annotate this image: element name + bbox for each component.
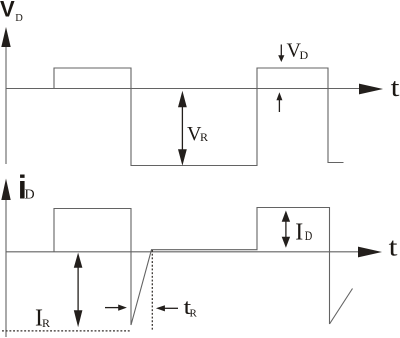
t_R label	[184, 295, 198, 319]
svg-text:R: R	[200, 130, 208, 144]
svg-text:R: R	[190, 308, 198, 320]
V_R measure arrow	[178, 91, 187, 166]
vertical V axis arrowhead	[1, 27, 10, 47]
svg-text:D: D	[300, 48, 309, 62]
right-pointing arrow (t_R marker left)	[105, 305, 127, 311]
i_D second recovery diagonal	[330, 289, 353, 325]
t axis arrowhead (top plot)	[359, 84, 383, 95]
horizontal t axis (top plot)	[6, 88, 362, 90]
dotted horizontal line (I_R level)	[2, 330, 130, 332]
I_R label	[35, 306, 50, 332]
vertical i axis arrowhead	[1, 179, 10, 201]
svg-text:D: D	[15, 13, 23, 24]
left-pointing arrow (t_R marker right)	[156, 305, 178, 311]
svg-text:D: D	[305, 229, 313, 243]
V_D down arrow (above second pulse)	[278, 45, 284, 63]
V_R label	[187, 123, 208, 145]
svg-text:R: R	[42, 316, 50, 330]
V_D annotation label	[287, 40, 309, 63]
I_R measure arrow	[74, 253, 83, 328]
horizontal t axis (bottom plot)	[6, 251, 362, 253]
svg-text:t: t	[391, 74, 400, 103]
label V_D (top axis quantity label)	[0, 0, 23, 24]
I_D label	[295, 220, 312, 246]
dotted vertical line (end of t_R)	[151, 250, 153, 331]
I_D measure arrow	[282, 211, 290, 248]
label i_D (bottom axis quantity label)	[18, 168, 35, 205]
V_D up arrow (below axis)	[276, 92, 282, 112]
V_D waveform	[54, 68, 344, 166]
svg-text:I: I	[295, 220, 303, 246]
svg-text:D: D	[25, 187, 35, 202]
vertical i axis	[5, 190, 7, 337]
svg-text:t: t	[389, 233, 398, 262]
svg-text:V: V	[0, 0, 15, 22]
i_D waveform	[54, 208, 330, 326]
t axis arrowhead (bottom plot)	[358, 247, 382, 258]
vertical V axis	[5, 38, 7, 164]
